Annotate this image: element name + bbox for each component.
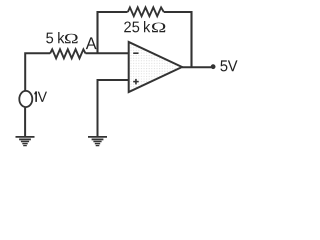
wire from source V1 up and across to resistor R1 xyxy=(25,53,50,91)
wire op-amp output xyxy=(182,66,211,68)
wire from node A up and across to resistor R2 xyxy=(98,12,128,53)
wire op-amp noninverting input xyxy=(98,80,129,137)
wire from resistor R1 to op-amp inverting input xyxy=(86,52,129,54)
voltage source V1 value label 1V xyxy=(34,91,47,102)
resistor R2 value label 25 kOhm xyxy=(124,21,165,32)
wire from resistor R2 down to output node xyxy=(164,12,192,67)
resistor R1 value label 5 kOhm xyxy=(46,32,77,43)
output node terminal dot xyxy=(211,64,216,69)
op-amp U1 triangle xyxy=(129,42,182,92)
node A label xyxy=(86,37,97,49)
ground under noninverting input wire xyxy=(88,137,107,146)
op-amp noninverting input plus sign xyxy=(133,79,139,85)
ground under source V1 xyxy=(16,137,35,146)
op-amp inverting input minus sign xyxy=(133,52,138,54)
resistor R2 zigzag 25 kOhm xyxy=(128,7,164,16)
voltage source V1 circle xyxy=(19,91,32,107)
wire from source V1 bottom to ground xyxy=(24,108,26,137)
resistor R1 zigzag 5 kOhm xyxy=(50,49,85,58)
output voltage label 5V xyxy=(220,60,237,71)
